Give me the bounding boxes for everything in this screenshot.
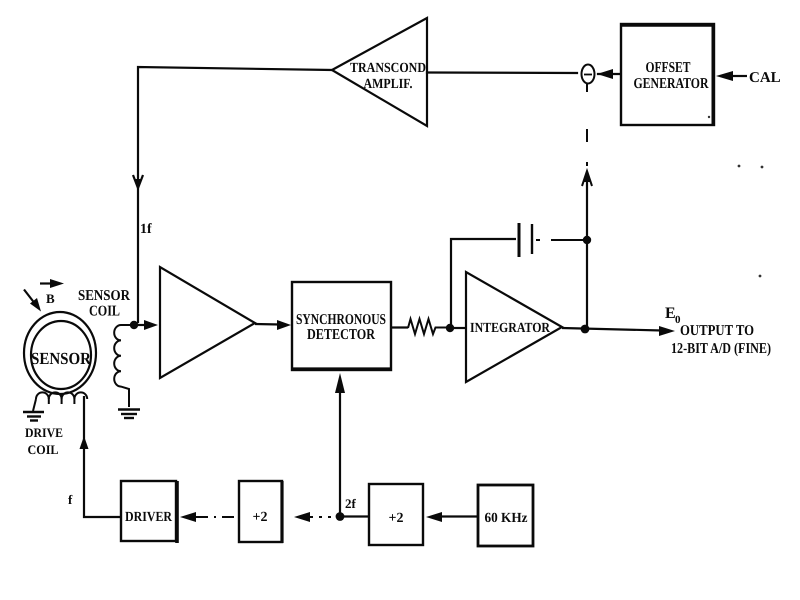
divider box +2 (first): [239, 481, 282, 542]
arrowhead into second divider: [426, 512, 442, 522]
capacitor C1 right plate: [531, 224, 533, 254]
inductor L1 sensor coil: [114, 325, 133, 407]
svg-text:SENSOR: SENSOR: [31, 349, 92, 368]
svg-text:COIL: COIL: [89, 304, 120, 320]
capacitor C1 left plate: [518, 223, 521, 257]
wire resistor to integrator: [450, 327, 466, 329]
op-amp U3 INTEGRATOR triangle: [466, 272, 562, 382]
svg-text:INTEGRATOR: INTEGRATOR: [470, 321, 551, 336]
drive coil scallop tails: [49, 398, 75, 404]
svg-text:DRIVER: DRIVER: [125, 510, 173, 525]
svg-text:2f: 2f: [345, 496, 357, 511]
svg-text:B: B: [46, 291, 55, 306]
B field diagonal arrow: [24, 290, 36, 306]
wire amplifier to sync detector: [255, 323, 280, 326]
sensor inner ring: [31, 321, 91, 389]
wire 2f up into sync detector: [339, 390, 341, 516]
junction dot at capacitor feedback: [583, 236, 591, 244]
node sensor coil junction dot: [130, 321, 138, 329]
wire transcond input from summing node: [427, 71, 577, 74]
svg-text:1f: 1f: [140, 222, 152, 237]
wire dash-dot from divider to driver: [196, 516, 239, 518]
svg-text:DRIVE: DRIVE: [25, 425, 63, 440]
oscillator box 60 KHz: [478, 485, 533, 546]
svg-text:CAL: CAL: [749, 70, 781, 86]
arrowhead down on 1f feedback wire: [133, 175, 143, 188]
wire transcond output to top-left corner: [138, 67, 332, 322]
wire dash-dot from 2f node to first divider: [310, 516, 336, 518]
svg-text:OUTPUT TO: OUTPUT TO: [680, 323, 754, 339]
wire capacitor right plate to junction: [536, 239, 587, 241]
divider box +2 (second): [369, 484, 423, 545]
wire 2f node to second divider: [340, 515, 369, 517]
svg-text:12-BIT A/D (FINE): 12-BIT A/D (FINE): [671, 341, 771, 357]
svg-text:f: f: [68, 492, 73, 507]
B field horizontal arrow: [40, 282, 53, 284]
driver box thick right edge: [175, 481, 179, 543]
drive coil right lead wire down to driver: [84, 396, 121, 517]
wire from 60KHz to second divider: [442, 515, 478, 517]
svg-text:COIL: COIL: [28, 442, 59, 457]
ground for sensor coil: [118, 410, 140, 419]
arrowhead output to A/D: [659, 326, 675, 336]
node output junction dot: [581, 325, 590, 334]
svg-text:GENERATOR: GENERATOR: [634, 76, 709, 92]
svg-text:DETECTOR: DETECTOR: [307, 327, 375, 343]
svg-text:60 KHz: 60 KHz: [485, 511, 528, 526]
offset generator box U2: [621, 24, 714, 125]
arrowhead into sync detector: [277, 320, 291, 330]
summing node circle: [582, 65, 595, 84]
svg-text:OFFSET: OFFSET: [646, 60, 691, 76]
resistor R1: [408, 319, 450, 334]
minus sign inside summing node: [584, 74, 592, 76]
svg-text:SENSOR: SENSOR: [78, 288, 130, 304]
arrowhead into offset generator from CAL: [716, 71, 733, 81]
driver box U6: [121, 481, 176, 541]
wire integrator output to E0: [562, 328, 662, 331]
svg-text:AMPLIF.: AMPLIF.: [364, 77, 413, 92]
wire sync detector output to resistor: [391, 326, 408, 328]
sensor outer ring: [24, 312, 96, 394]
op-amp U1 TRANSCOND AMPLIF triangle: [332, 18, 427, 126]
svg-text:+2: +2: [389, 511, 404, 526]
dashed wire summing node down: [586, 84, 588, 166]
scan specks: [708, 116, 764, 278]
node integrator input junction dot: [446, 324, 454, 332]
op-amp U4 main amplifier triangle: [160, 267, 255, 378]
svg-text:TRANSCOND: TRANSCOND: [350, 61, 426, 76]
svg-text:SYNCHRONOUS: SYNCHRONOUS: [296, 312, 386, 328]
arrowhead into summing node from offset generator: [597, 69, 613, 79]
arrowhead up toward summing node: [582, 171, 592, 186]
wire junction to amplifier with arrowhead: [138, 324, 146, 326]
ground for drive coil: [23, 412, 44, 421]
arrowhead up on drive lead: [80, 436, 89, 449]
wire feedback from integrator input node up and right to capacitor: [451, 239, 516, 328]
drive coil left lead: [33, 399, 36, 411]
arrowhead into first divider: [294, 512, 310, 522]
wire output node up to arrow: [586, 172, 588, 329]
wire CAL input: [731, 75, 747, 77]
wire offset generator output to summing node: [598, 73, 620, 75]
node 2f junction dot: [336, 512, 345, 521]
arrowhead into driver: [180, 512, 196, 522]
svg-text:+2: +2: [253, 510, 268, 525]
arrowhead up into sync detector: [335, 373, 345, 393]
drive coil scallops: [36, 392, 87, 399]
synchronous detector box U5: [292, 282, 391, 370]
